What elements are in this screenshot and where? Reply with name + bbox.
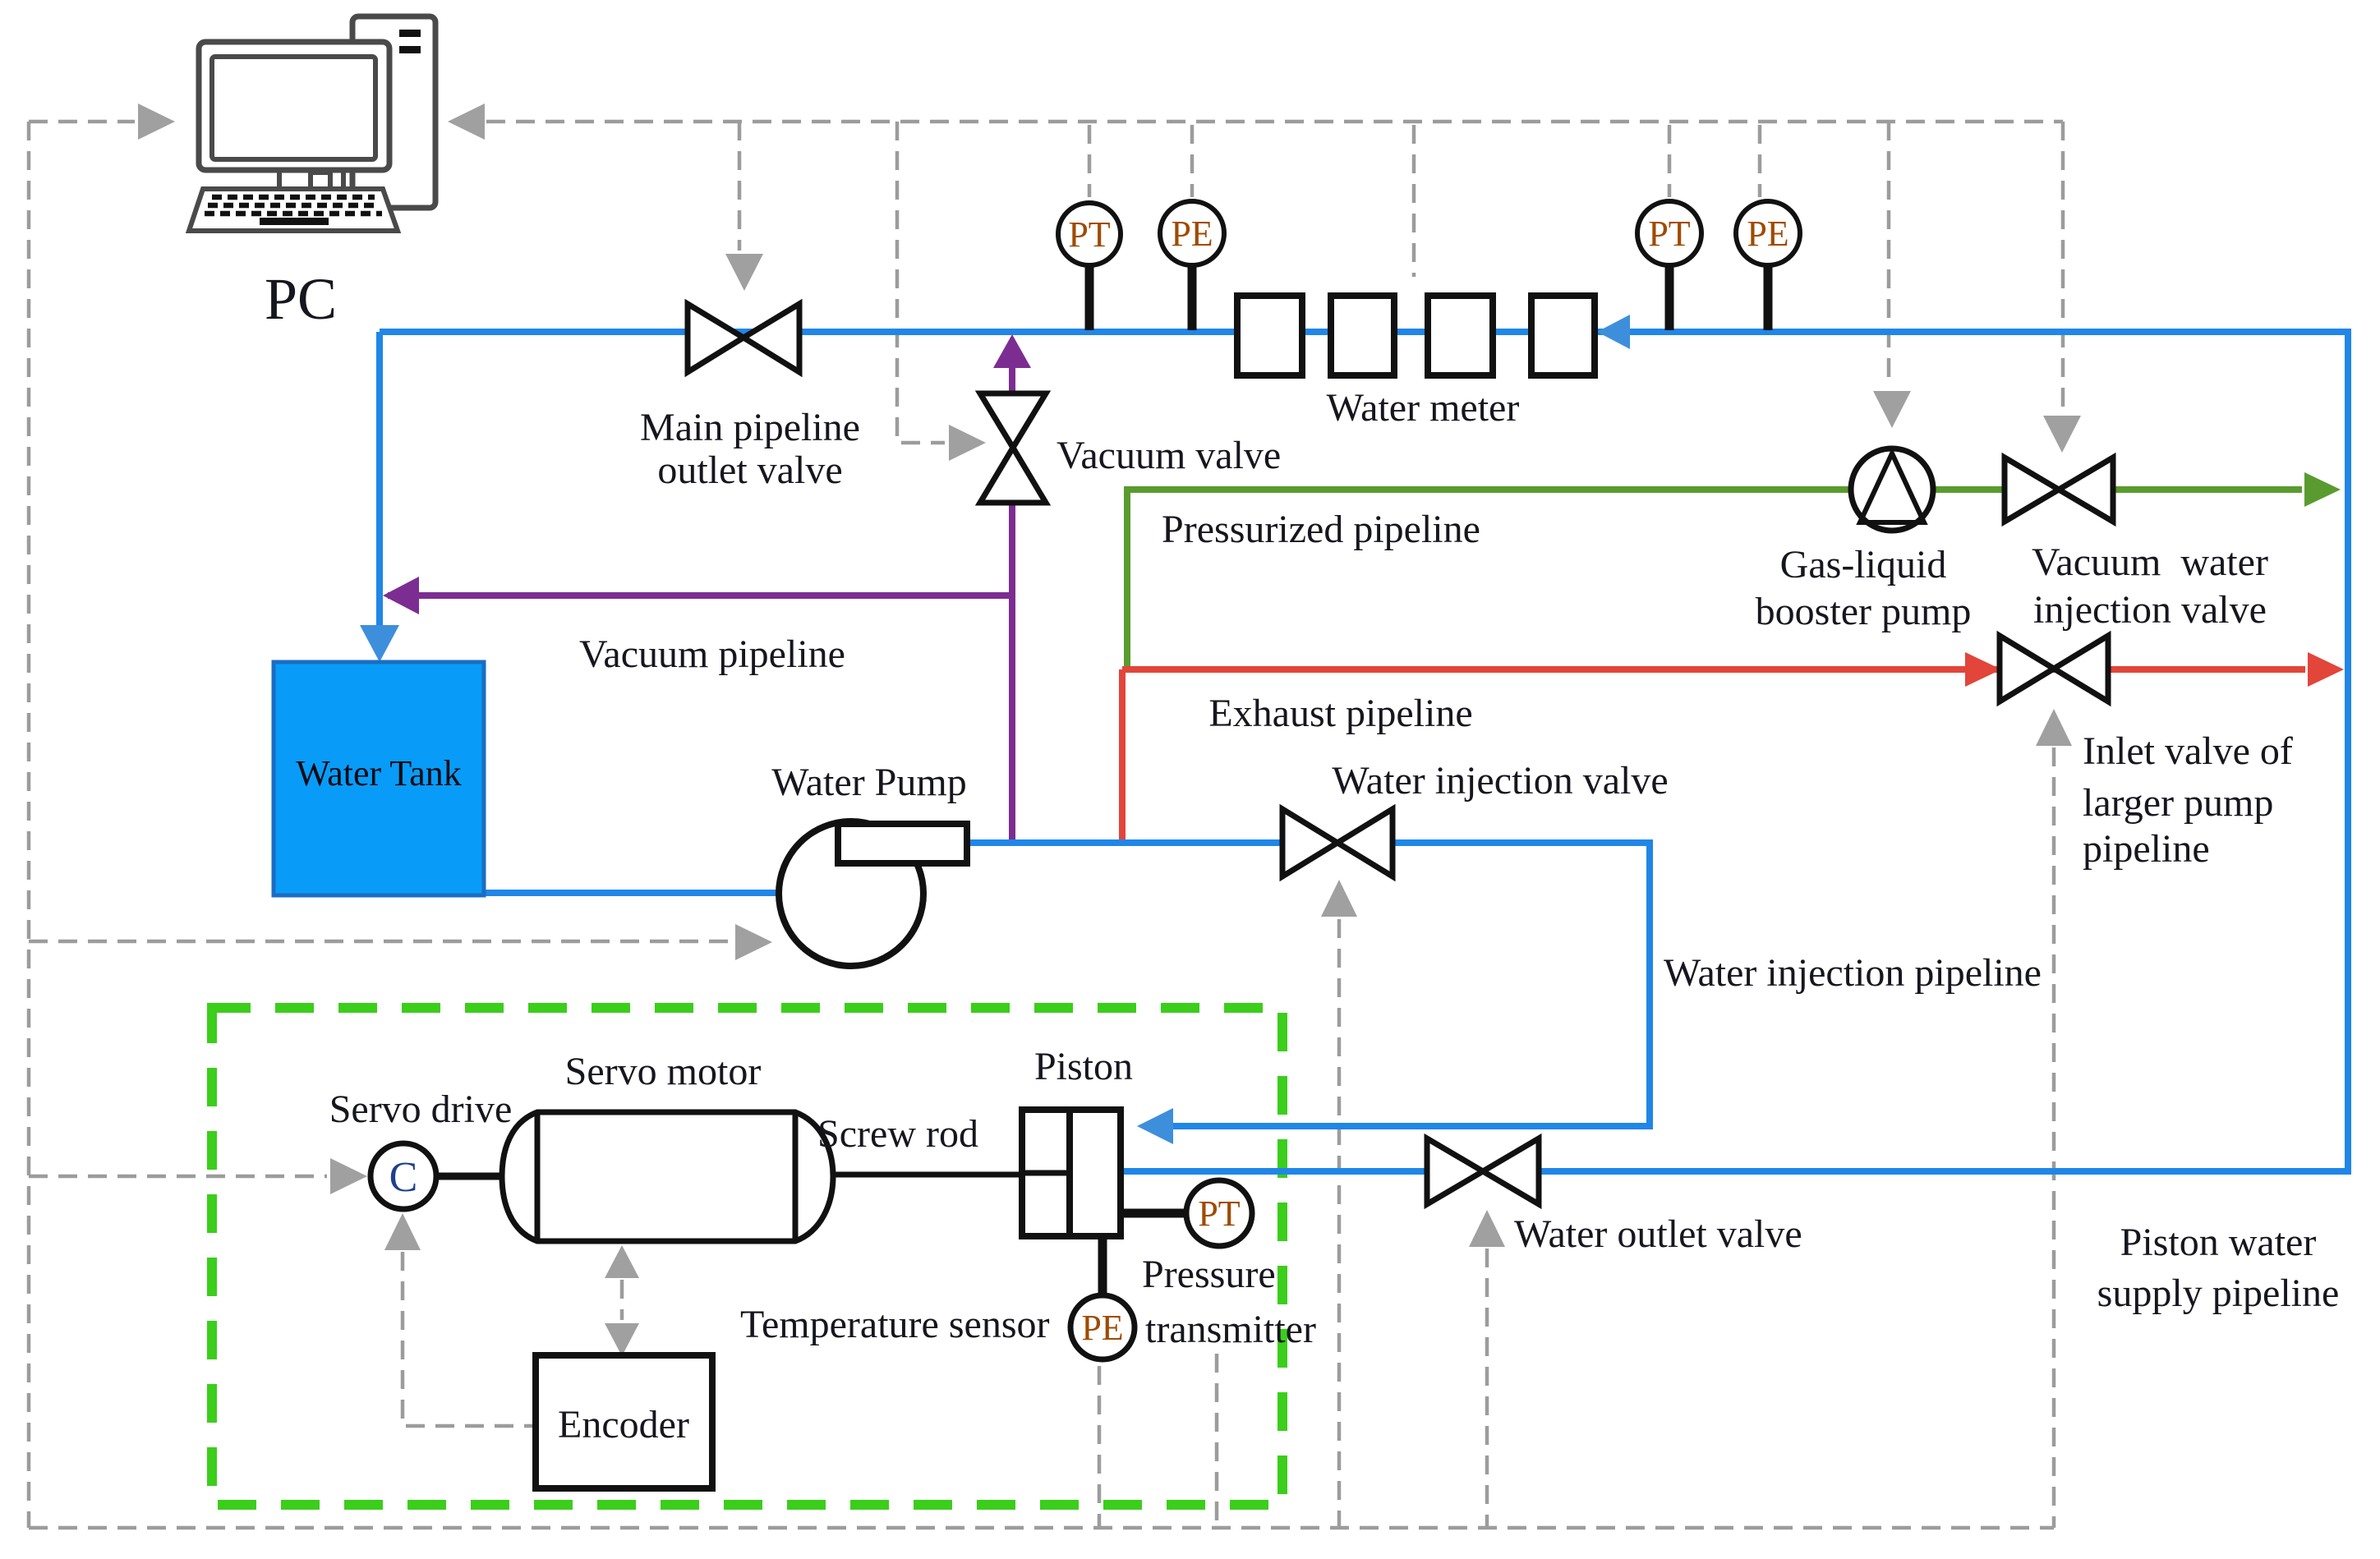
wire: blue main pipeline loop (top, right side, bottom piston supply): [380, 332, 2348, 1171]
node: gray arrowhead up into water outlet valve: [1469, 1210, 1505, 1247]
svg-text:C: C: [389, 1154, 418, 1201]
wire: gray dashed riser to inlet valve of larger pump pipeline: [2052, 747, 2056, 1528]
servo drive C: [371, 1143, 504, 1209]
node: blue arrowhead into piston (water injection): [1137, 1108, 1173, 1144]
svg-text:Main pipeline: Main pipeline: [640, 406, 860, 449]
wire: blue suction line tank to water pump: [481, 890, 780, 896]
svg-text:Water injection pipeline: Water injection pipeline: [1664, 951, 2042, 995]
wire: gray dashed stub to gauge PT2: [1668, 125, 1672, 197]
wire: gray dashed stub to water meter: [1412, 125, 1416, 277]
svg-text:Encoder: Encoder: [558, 1403, 689, 1446]
svg-text:Water Pump: Water Pump: [771, 761, 966, 804]
wire: purple vacuum pipeline horizontal to water tank drop: [388, 592, 1012, 599]
wire: gray dashed left control bus vertical: [27, 122, 31, 1528]
water meter (4 chambers): [1237, 296, 1595, 375]
wire: gray dashed drop to gas-liquid booster pump: [1887, 122, 1891, 387]
node: gray arrowhead into PC right: [448, 103, 485, 140]
wire: red exhaust pipeline riser: [1119, 669, 1126, 839]
svg-text:pipeline: pipeline: [2083, 827, 2210, 871]
wire: gray dashed stub to gauge PE2: [1758, 125, 1762, 197]
valve: vacuum valve: [980, 393, 1046, 503]
svg-text:supply pipeline: supply pipeline: [2097, 1272, 2340, 1315]
wire: gray dashed riser to water injection valve: [1337, 919, 1342, 1526]
svg-text:Piston: Piston: [1034, 1045, 1133, 1088]
wire: gray dashed drop below pressure sensor PE: [1098, 1366, 1102, 1526]
svg-text:Temperature sensor: Temperature sensor: [740, 1303, 1049, 1346]
svg-text:Exhaust pipeline: Exhaust pipeline: [1208, 692, 1472, 735]
svg-text:PE: PE: [1081, 1308, 1123, 1348]
node: purple arrowhead left into tank drop (vacuum pipeline): [383, 577, 419, 614]
svg-text:PC: PC: [265, 266, 337, 332]
valve: water outlet valve: [1427, 1138, 1539, 1204]
svg-text:injection valve: injection valve: [2033, 588, 2267, 632]
wire: gray dashed link servo motor to encoder: [620, 1280, 624, 1320]
wire: gray dashed riser to water outlet valve: [1485, 1249, 1489, 1526]
svg-text:Vacuum pipeline: Vacuum pipeline: [579, 632, 845, 676]
svg-text:Servo drive: Servo drive: [329, 1088, 513, 1131]
svg-text:Vacuum water: Vacuum water: [2032, 540, 2268, 584]
gauge PT pressure transmitter at piston: [1124, 1180, 1252, 1246]
wire: green pressurized pipeline: [1127, 490, 2302, 666]
svg-text:PT: PT: [1068, 214, 1110, 255]
PC computer icon: [189, 16, 435, 231]
node: purple arrowhead up into main pipeline: [993, 334, 1031, 368]
svg-text:Gas-liquid: Gas-liquid: [1780, 543, 1947, 586]
gauge PE temperature sensor at piston: [1070, 1239, 1135, 1359]
valve: inlet valve of larger pump pipeline: [2000, 636, 2108, 701]
svg-text:Screw rod: Screw rod: [817, 1112, 978, 1156]
wire: gray dashed drop to vacuum water injection valve: [2061, 122, 2065, 412]
wire: gray dashed stub to gauge PE1: [1190, 125, 1195, 197]
water pump: [779, 821, 967, 966]
wire: blue pump discharge / water injection pipeline: [967, 843, 1650, 1126]
wire: red exhaust pipeline horizontal: [1122, 666, 2305, 673]
wire: gray dashed bottom control bus horizontal: [29, 1526, 2054, 1530]
wire: blue drop from main pipeline into water tank: [376, 332, 383, 628]
svg-text:PE: PE: [1171, 214, 1213, 254]
water tank: [274, 662, 484, 895]
wire: gray dashed top control bus horizontal: [486, 120, 2063, 124]
piston: [1022, 1110, 1121, 1236]
node: gray arrowhead down to main pipeline outlet valve: [725, 254, 763, 291]
valve: main pipeline outlet valve: [688, 304, 799, 372]
node: gray arrowhead right into water pump: [735, 924, 772, 960]
gauge PT1: [1058, 203, 1121, 330]
wire: gray dashed branch to servo drive: [29, 1175, 327, 1179]
node: gray arrowhead right into vacuum valve: [949, 425, 986, 461]
wire: gray dashed top-left branch to PC: [29, 120, 135, 124]
svg-text:PT: PT: [1198, 1193, 1240, 1234]
svg-text:larger pump: larger pump: [2083, 781, 2273, 825]
svg-text:Water outlet valve: Water outlet valve: [1514, 1212, 1802, 1256]
wire: gray dashed stub to gauge PT1: [1088, 125, 1092, 197]
node: green arrowhead at right end of pressurized pipeline: [2304, 472, 2341, 507]
node: gray arrowhead down to gas-liquid booster pump: [1873, 391, 1911, 428]
node: gray arrowhead into PC left: [138, 103, 175, 140]
node: gray arrowhead up into servo motor: [605, 1245, 639, 1278]
gauge PT2: [1637, 201, 1701, 330]
node: blue arrowhead into water tank: [360, 625, 399, 662]
svg-text:booster pump: booster pump: [1756, 590, 1972, 633]
node: gray arrowhead right into servo drive: [330, 1158, 367, 1194]
wire: gray dashed encoder feedback to servo drive: [403, 1252, 534, 1426]
wire: gray dashed drop and elbow to vacuum valve: [897, 122, 945, 443]
gauge PE2: [1736, 201, 1800, 330]
node: gray arrowhead up into servo drive from encoder loop: [384, 1213, 421, 1250]
wire: gray dashed drop below pressure transmitter PT: [1215, 1354, 1219, 1526]
green dashed servo system boundary box: [212, 1008, 1282, 1505]
svg-text:Servo motor: Servo motor: [565, 1050, 762, 1093]
svg-text:transmitter: transmitter: [1145, 1308, 1316, 1351]
node: gray arrowhead down to vacuum water injection valve: [2043, 416, 2081, 453]
wire: gray dashed branch to water pump: [29, 940, 732, 944]
gas-liquid booster pump: [1851, 448, 1933, 531]
svg-text:Water Tank: Water Tank: [296, 753, 461, 793]
svg-text:Vacuum valve: Vacuum valve: [1056, 434, 1281, 477]
wire: gray dashed drop to main pipeline outlet valve: [738, 122, 742, 251]
node: blue arrowhead into water meter: [1597, 315, 1630, 349]
node: red arrowhead at right end of exhaust pipeline: [2308, 652, 2344, 687]
svg-text:PE: PE: [1747, 214, 1788, 254]
svg-text:Pressure: Pressure: [1142, 1253, 1276, 1296]
svg-text:Inlet valve of: Inlet valve of: [2083, 729, 2293, 773]
svg-text:Water injection valve: Water injection valve: [1332, 759, 1668, 802]
node: red arrowhead into inlet valve: [1965, 652, 2001, 687]
svg-text:outlet valve: outlet valve: [657, 448, 842, 492]
svg-text:Pressurized pipeline: Pressurized pipeline: [1162, 508, 1480, 551]
node: gray arrowhead up into water injection valve: [1321, 880, 1357, 917]
valve: vacuum water injection valve: [2005, 458, 2113, 522]
node: gray arrowhead up into inlet valve of larger pump pipeline: [2036, 709, 2072, 746]
svg-text:Water meter: Water meter: [1327, 386, 1520, 430]
svg-text:Piston water: Piston water: [2120, 1221, 2317, 1264]
wire: purple vacuum line upper stub into main pipeline: [1009, 365, 1015, 393]
gauge PE1: [1160, 201, 1224, 330]
wire: purple vacuum line below vacuum valve down to pump discharge: [1009, 503, 1015, 839]
screw rod: [833, 1172, 1022, 1178]
servo motor: [502, 1112, 833, 1241]
valve: water injection valve: [1282, 809, 1393, 876]
svg-text:PT: PT: [1648, 214, 1690, 254]
encoder box: [536, 1355, 712, 1488]
node: gray arrowhead down into encoder: [605, 1323, 639, 1356]
